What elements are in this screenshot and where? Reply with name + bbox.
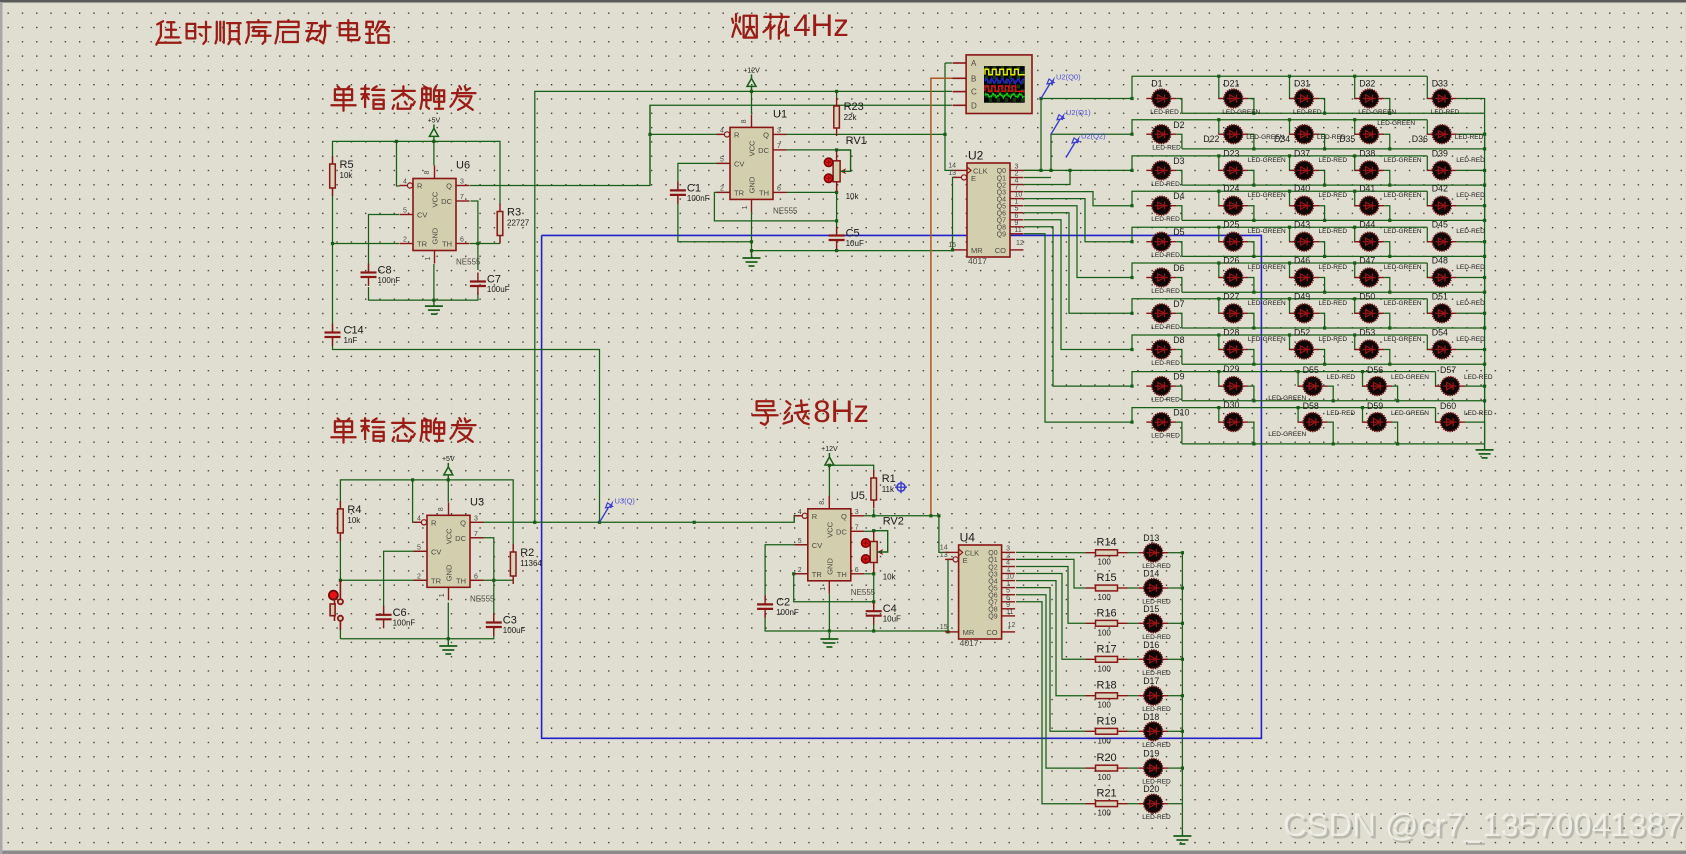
svg-text:1: 1 bbox=[742, 205, 749, 209]
svg-text:TH: TH bbox=[442, 240, 452, 249]
junction U3 TH bbox=[492, 579, 495, 582]
junction row10 topj2 bbox=[1217, 406, 1220, 409]
svg-text:1: 1 bbox=[820, 587, 827, 591]
svg-text:D8: D8 bbox=[1173, 335, 1184, 345]
svg-text:R: R bbox=[734, 130, 740, 139]
svg-text:Q1: Q1 bbox=[997, 175, 1006, 182]
wire U4 Q2 to R16 bbox=[1016, 567, 1086, 624]
wire U2 Q9 to LED row 10 bbox=[1024, 234, 1132, 422]
wire LED collector bbox=[1484, 113, 1486, 444]
svg-text:100: 100 bbox=[1098, 773, 1112, 782]
svg-text:LED-RED: LED-RED bbox=[1151, 216, 1180, 223]
LED D18 LED-RED bbox=[1138, 712, 1171, 749]
svg-text:TH: TH bbox=[759, 188, 769, 197]
svg-text:LED-RED: LED-RED bbox=[1151, 433, 1180, 440]
wire U1 gnd stub bbox=[751, 213, 753, 251]
svg-text:D37: D37 bbox=[1294, 148, 1310, 158]
svg-text:LED-GREEN: LED-GREEN bbox=[1248, 336, 1286, 343]
svg-text:11: 11 bbox=[1015, 227, 1022, 234]
junction row6 topj3 bbox=[1288, 261, 1291, 264]
wire row10 bottom bus bbox=[1182, 443, 1485, 445]
wire row4 drop c4 bbox=[1355, 191, 1361, 206]
junction row7 botj2 bbox=[1252, 326, 1255, 329]
wire row5 cath c4 bbox=[1384, 242, 1390, 257]
junction row1 botj2 bbox=[1252, 112, 1255, 115]
svg-text:D42: D42 bbox=[1432, 184, 1448, 194]
wire R1 bottom bbox=[873, 508, 875, 515]
svg-text:100nF: 100nF bbox=[687, 194, 710, 203]
svg-text:Q: Q bbox=[763, 130, 769, 139]
svg-text:10: 10 bbox=[1006, 574, 1014, 581]
svg-text:5: 5 bbox=[1006, 588, 1010, 595]
LED D21 LED-GREEN bbox=[1218, 79, 1260, 117]
svg-text:D40: D40 bbox=[1294, 184, 1310, 194]
svg-text:LED-GREEN: LED-GREEN bbox=[1268, 431, 1306, 438]
LED D49 LED-RED bbox=[1289, 291, 1347, 322]
junction U6 R top bbox=[395, 140, 398, 143]
wire row7 cath c2 bbox=[1248, 313, 1254, 328]
svg-text:14: 14 bbox=[948, 163, 956, 170]
junction row10 feed bbox=[1130, 421, 1133, 424]
svg-text:11k: 11k bbox=[882, 485, 895, 494]
wire row9 cath c2 bbox=[1248, 386, 1254, 401]
wire U2 Q8 to LED row 9 bbox=[1024, 227, 1132, 386]
junction row5 botj4 bbox=[1388, 255, 1391, 258]
svg-text:4: 4 bbox=[720, 127, 724, 134]
junction Q/R branch bbox=[648, 133, 651, 136]
wire button bottom bbox=[339, 620, 341, 639]
svg-text:D25: D25 bbox=[1223, 220, 1239, 230]
wire row2 drop c5 bbox=[1427, 120, 1433, 135]
svg-text:4: 4 bbox=[798, 509, 802, 516]
LED D46 LED-RED bbox=[1289, 256, 1347, 287]
wire row7 drop c5 bbox=[1427, 299, 1433, 314]
svg-text:D5: D5 bbox=[1173, 227, 1184, 237]
wire row7 top bus bbox=[1132, 299, 1427, 314]
svg-text:Q5: Q5 bbox=[988, 585, 997, 592]
LED D25 LED-GREEN bbox=[1218, 220, 1286, 251]
svg-text:D2: D2 bbox=[1173, 120, 1184, 130]
svg-text:LED-RED: LED-RED bbox=[1431, 109, 1460, 116]
svg-text:8: 8 bbox=[438, 507, 445, 511]
wire row9 drop c2 bbox=[1219, 372, 1225, 387]
wire row2 drop c2 bbox=[1219, 120, 1225, 135]
wire U2 Q4 to LED row 5 bbox=[1024, 199, 1132, 242]
resistor R18 100 bbox=[1086, 680, 1128, 710]
LED D27 LED-GREEN bbox=[1218, 291, 1286, 322]
svg-text:LED-RED: LED-RED bbox=[1293, 109, 1322, 116]
svg-text:10k: 10k bbox=[347, 516, 361, 525]
wire row2 top bus bbox=[1132, 120, 1427, 135]
junction q0 j2 bbox=[1049, 169, 1052, 172]
svg-text:D39: D39 bbox=[1432, 148, 1448, 158]
capacitor C3 100uF bbox=[486, 614, 526, 637]
LED D34 LED-RED bbox=[1274, 125, 1346, 144]
LED D37 LED-RED bbox=[1289, 148, 1347, 179]
junction row6 bus bbox=[1483, 291, 1486, 294]
svg-text:LED-RED: LED-RED bbox=[1319, 336, 1348, 343]
svg-text:DC: DC bbox=[441, 197, 452, 206]
junction row1 botj3 bbox=[1323, 112, 1326, 115]
resistor R21 100 bbox=[1086, 788, 1128, 818]
svg-text:LED-GREEN: LED-GREEN bbox=[1384, 192, 1422, 199]
svg-text:Q2: Q2 bbox=[997, 182, 1006, 189]
svg-text:2: 2 bbox=[720, 185, 724, 192]
junction dbus3 bbox=[1181, 658, 1184, 661]
wire U2 Q5 to LED row 6 bbox=[1024, 206, 1132, 278]
svg-text:LED-GREEN: LED-GREEN bbox=[1248, 264, 1286, 271]
op-amp timer U5 NE555 bbox=[794, 490, 876, 597]
wire U2 Q6 to LED row 7 bbox=[1024, 213, 1132, 314]
svg-text:Q2: Q2 bbox=[988, 564, 997, 571]
wire U6 TR wire bbox=[333, 243, 400, 245]
window edge bottom bbox=[3, 851, 1686, 854]
junction q0 j1 bbox=[1039, 169, 1042, 172]
svg-text:Q4: Q4 bbox=[988, 578, 997, 585]
wire row7 cath c4 bbox=[1384, 313, 1390, 328]
LED D39 LED-RED bbox=[1427, 148, 1485, 179]
svg-text:U6: U6 bbox=[456, 160, 470, 172]
wire row3 drop c5 bbox=[1427, 156, 1433, 171]
junction row5 topj2 bbox=[1217, 226, 1220, 229]
wire U5 R wire bbox=[794, 516, 801, 523]
junction dbus4 bbox=[1181, 694, 1184, 697]
junction row2 botj4 bbox=[1388, 147, 1391, 150]
wire row1 drop c2 bbox=[1219, 76, 1225, 98]
wire row9 cath c4 bbox=[1392, 386, 1398, 401]
wire R14 to D13 bbox=[1128, 552, 1139, 554]
svg-text:6: 6 bbox=[474, 573, 478, 580]
svg-text:5: 5 bbox=[403, 208, 407, 215]
svg-text:D16: D16 bbox=[1143, 640, 1159, 650]
LED D7 LED-RED bbox=[1146, 299, 1184, 331]
svg-text:100: 100 bbox=[1098, 558, 1112, 567]
junction row8 botj2 bbox=[1252, 363, 1255, 366]
svg-text:2: 2 bbox=[1006, 552, 1010, 559]
LED D57 LED-RED bbox=[1435, 365, 1493, 395]
junction row7 bus bbox=[1483, 326, 1486, 329]
svg-text:C6: C6 bbox=[393, 607, 407, 619]
svg-text:R14: R14 bbox=[1097, 537, 1117, 549]
LED D45 LED-RED bbox=[1427, 220, 1485, 251]
junction U1 DC bbox=[835, 148, 838, 151]
svg-text:LED-GREEN: LED-GREEN bbox=[1384, 300, 1422, 307]
svg-text:D18: D18 bbox=[1143, 712, 1159, 722]
svg-text:D19: D19 bbox=[1143, 749, 1159, 759]
LED D31 LED-RED bbox=[1289, 79, 1322, 117]
wire row5 cath c3 bbox=[1319, 242, 1325, 257]
wire row10 drop c5 bbox=[1436, 408, 1442, 423]
svg-text:Q0: Q0 bbox=[988, 550, 997, 557]
svg-text:R1: R1 bbox=[882, 473, 896, 485]
junction row9 topj2 bbox=[1217, 370, 1220, 373]
wire row2 drop c4 bbox=[1355, 120, 1361, 135]
svg-text:LED-RED: LED-RED bbox=[1464, 374, 1493, 381]
wire row3 drop c2 bbox=[1219, 156, 1225, 171]
svg-text:D1: D1 bbox=[1151, 79, 1162, 89]
svg-text:100: 100 bbox=[1098, 736, 1112, 745]
svg-text:11: 11 bbox=[1006, 609, 1013, 616]
svg-text:100uF: 100uF bbox=[487, 285, 510, 294]
wire U3 CV wire bbox=[384, 551, 427, 614]
svg-text:3: 3 bbox=[1015, 163, 1019, 170]
svg-text:C8: C8 bbox=[378, 265, 392, 277]
wire U1 TR route bbox=[714, 192, 836, 221]
svg-text:MR: MR bbox=[971, 246, 983, 255]
op-amp timer U6 NE555 bbox=[400, 160, 482, 267]
svg-text:Q0: Q0 bbox=[997, 168, 1006, 175]
svg-text:R3: R3 bbox=[507, 207, 521, 219]
svg-text:10k: 10k bbox=[883, 573, 897, 582]
wire row4 cath c4 bbox=[1384, 206, 1390, 221]
svg-text:D30: D30 bbox=[1223, 400, 1239, 410]
junction C4 gnd bbox=[872, 629, 875, 632]
wire row5 cath c1 bbox=[1176, 242, 1182, 257]
junction p0 bbox=[1039, 97, 1042, 100]
svg-text:LED-RED: LED-RED bbox=[1142, 814, 1171, 821]
junction Q stair bbox=[937, 514, 940, 517]
junction row7 topj4 bbox=[1353, 297, 1356, 300]
junction C5 gnd bbox=[835, 249, 838, 252]
wire row10 cath c3 bbox=[1328, 422, 1334, 444]
junction row4 topj3 bbox=[1288, 190, 1291, 193]
wire row3 cath c5 bbox=[1457, 170, 1485, 185]
wire D19 cathode bbox=[1168, 767, 1182, 769]
svg-text:RV1: RV1 bbox=[846, 135, 867, 147]
svg-text:LED-RED: LED-RED bbox=[1456, 192, 1485, 199]
wire U3 Q long wire bbox=[484, 516, 802, 523]
LED D15 LED-RED bbox=[1138, 604, 1171, 641]
wire row4 cath c5 bbox=[1457, 206, 1485, 221]
svg-text:R16: R16 bbox=[1097, 607, 1117, 619]
svg-text:Q9: Q9 bbox=[997, 232, 1006, 239]
wire U1 CV wire bbox=[678, 163, 730, 189]
svg-text:R19: R19 bbox=[1097, 715, 1117, 727]
svg-text:10: 10 bbox=[1015, 192, 1023, 199]
svg-text:100: 100 bbox=[1098, 593, 1112, 602]
wire row8 cath c2 bbox=[1248, 350, 1254, 365]
junction U3 R top bbox=[411, 478, 414, 481]
svg-text:NE555: NE555 bbox=[456, 258, 481, 267]
svg-text:R17: R17 bbox=[1097, 643, 1117, 655]
svg-text:CV: CV bbox=[431, 547, 441, 556]
wire row8 cath c3 bbox=[1319, 350, 1325, 365]
svg-text:U2(Q2): U2(Q2) bbox=[1081, 132, 1106, 141]
svg-text:D4: D4 bbox=[1173, 191, 1184, 201]
wire row10 drop c3 bbox=[1298, 408, 1304, 423]
LED D24 LED-GREEN bbox=[1218, 184, 1286, 215]
svg-text:100: 100 bbox=[1098, 628, 1112, 637]
LED D8 LED-RED bbox=[1146, 335, 1184, 367]
power +5V bbox=[442, 456, 455, 480]
ground bbox=[425, 300, 443, 314]
junction row10 botj3 bbox=[1332, 442, 1335, 445]
svg-text:U2: U2 bbox=[968, 149, 984, 163]
potentiometer RV1 10k bbox=[824, 135, 866, 201]
wire U4 Q7 to R21 bbox=[1016, 602, 1086, 804]
wire row5 cath c5 bbox=[1457, 242, 1485, 257]
svg-text:12: 12 bbox=[1016, 240, 1024, 247]
LED D10 LED-RED bbox=[1146, 408, 1189, 440]
svg-text:CV: CV bbox=[417, 211, 427, 220]
junction row2 topj3 bbox=[1288, 118, 1291, 121]
junction row8 botj4 bbox=[1388, 363, 1391, 366]
wire R23 top stub bbox=[836, 91, 838, 98]
junction U5 TH bbox=[872, 572, 875, 575]
wire C1 bottom bbox=[678, 195, 752, 242]
wire C14 bottom run bbox=[333, 338, 600, 522]
ground bbox=[439, 640, 457, 654]
junction row8 topj4 bbox=[1353, 333, 1356, 336]
wire U3 DC wire bbox=[470, 538, 494, 622]
op-amp timer U1 NE555 bbox=[717, 108, 799, 215]
wire row1 drop c5 bbox=[1427, 76, 1433, 98]
junction row8 botj3 bbox=[1323, 363, 1326, 366]
junction row7 topj3 bbox=[1288, 297, 1291, 300]
svg-text:LED-RED: LED-RED bbox=[1456, 228, 1485, 235]
window edge top bbox=[0, 0, 1686, 3]
svg-text:U2(Q0): U2(Q0) bbox=[1056, 73, 1081, 82]
svg-text:9: 9 bbox=[1015, 220, 1019, 227]
LED D5 LED-RED bbox=[1146, 227, 1184, 259]
svg-text:D55: D55 bbox=[1303, 365, 1319, 375]
svg-text:CV: CV bbox=[812, 541, 822, 550]
svg-text:DC: DC bbox=[836, 527, 847, 536]
wire C4 top stub bbox=[873, 602, 875, 610]
svg-text:RV2: RV2 bbox=[883, 516, 904, 528]
junction row2 feed bbox=[1130, 133, 1133, 136]
wire row5 top bus bbox=[1132, 227, 1427, 242]
svg-text:R23: R23 bbox=[844, 101, 864, 113]
counter U2 4017 bbox=[948, 149, 1024, 267]
junction dbus6 bbox=[1181, 767, 1184, 770]
wire U1 vcc stub bbox=[751, 91, 753, 114]
svg-text:D27: D27 bbox=[1223, 291, 1239, 301]
wire U2 Q1 wire bbox=[1024, 177, 1051, 179]
junction U1 Q/A bbox=[943, 133, 946, 136]
svg-text:C2: C2 bbox=[776, 596, 790, 608]
junction row9 botj3 bbox=[1332, 399, 1335, 402]
svg-text:LED-RED: LED-RED bbox=[1151, 397, 1180, 404]
svg-text:Q5: Q5 bbox=[997, 204, 1006, 211]
resistor R1 11k bbox=[871, 470, 896, 508]
ground bbox=[1173, 830, 1191, 844]
svg-text:100: 100 bbox=[1098, 809, 1112, 818]
LED D20 LED-RED bbox=[1138, 784, 1171, 821]
LED D33 LED-RED bbox=[1427, 79, 1460, 117]
wire row7 drop c2 bbox=[1219, 299, 1225, 314]
title 延时顺序启动电路 bbox=[156, 20, 389, 44]
wire R19 to D18 bbox=[1128, 730, 1139, 732]
junction U3 TR bbox=[339, 579, 342, 582]
svg-text:+12V: +12V bbox=[821, 446, 838, 453]
svg-text:D6: D6 bbox=[1173, 263, 1184, 273]
svg-text:DC: DC bbox=[758, 146, 769, 155]
junction U5 vcc bbox=[828, 464, 831, 467]
wire blue loop bbox=[542, 235, 1262, 738]
wire row3 drop c3 bbox=[1290, 156, 1296, 171]
svg-text:Q8: Q8 bbox=[988, 607, 997, 614]
svg-text:D46: D46 bbox=[1294, 256, 1310, 266]
junction row6 botj4 bbox=[1388, 291, 1391, 294]
junction row1 feed bbox=[1130, 97, 1133, 100]
wire row1 cath c1 bbox=[1176, 99, 1182, 114]
wire row10 cath c5 bbox=[1465, 422, 1485, 444]
svg-text:D22: D22 bbox=[1203, 134, 1219, 144]
svg-text:CO: CO bbox=[986, 628, 997, 637]
junction R23 top tap bbox=[835, 90, 838, 93]
svg-text:VCC: VCC bbox=[431, 191, 440, 207]
junction q2 j bbox=[1068, 169, 1071, 172]
svg-text:NE555: NE555 bbox=[470, 594, 495, 603]
wire U5 vcc bus bbox=[828, 466, 830, 505]
wire row3 cath c2 bbox=[1248, 170, 1254, 185]
wire U1 R branch bbox=[650, 133, 723, 135]
svg-text:LED-GREEN: LED-GREEN bbox=[1248, 192, 1286, 199]
wire row3 drop c4 bbox=[1355, 156, 1361, 171]
svg-text:E: E bbox=[963, 556, 968, 565]
junction row8 topj3 bbox=[1288, 333, 1291, 336]
wire row8 drop c5 bbox=[1427, 335, 1433, 350]
wire RV2 col bbox=[873, 563, 875, 602]
junction dbus0 bbox=[1181, 551, 1184, 554]
svg-text:7: 7 bbox=[777, 143, 781, 150]
ground bbox=[1476, 444, 1494, 458]
power +12V bbox=[743, 67, 760, 91]
wire row8 drop c4 bbox=[1355, 335, 1361, 350]
wire row5 drop c2 bbox=[1219, 227, 1225, 242]
junction dbus2 bbox=[1181, 622, 1184, 625]
LED D40 LED-RED bbox=[1289, 184, 1347, 215]
wire row6 cath c2 bbox=[1248, 278, 1254, 293]
svg-text:LED-RED: LED-RED bbox=[1319, 264, 1348, 271]
svg-text:10uF: 10uF bbox=[846, 239, 864, 248]
svg-text:C4: C4 bbox=[883, 603, 897, 615]
svg-text:22k: 22k bbox=[844, 113, 858, 122]
svg-text:TR: TR bbox=[812, 570, 823, 579]
wire row7 cath c5 bbox=[1457, 313, 1485, 328]
svg-text:15: 15 bbox=[948, 242, 956, 249]
junction U5 TR bbox=[792, 572, 795, 575]
wire row6 cath c3 bbox=[1319, 278, 1325, 293]
wire row9 drop c3 bbox=[1298, 372, 1304, 387]
wire row9 cath c3 bbox=[1328, 386, 1334, 401]
svg-text:LED-RED: LED-RED bbox=[1319, 157, 1348, 164]
LED D22 LED-GREEN bbox=[1203, 125, 1284, 144]
junction row6 botj2 bbox=[1252, 291, 1255, 294]
junction row6 feed bbox=[1130, 276, 1133, 279]
marker blue cross bbox=[895, 481, 907, 493]
junction row9 topj4 bbox=[1361, 370, 1364, 373]
svg-text:D43: D43 bbox=[1294, 220, 1310, 230]
wire row6 cath c1 bbox=[1176, 278, 1182, 293]
svg-text:D15: D15 bbox=[1143, 604, 1159, 614]
svg-text:+5V: +5V bbox=[428, 117, 441, 124]
svg-text:D35: D35 bbox=[1339, 134, 1355, 144]
wire row2 cath c1 bbox=[1176, 134, 1182, 149]
LED D60 LED-RED bbox=[1435, 401, 1493, 431]
svg-text:6: 6 bbox=[1006, 595, 1010, 602]
svg-text:LED-GREEN: LED-GREEN bbox=[1384, 264, 1422, 271]
wire U1 DC wire bbox=[787, 149, 837, 151]
svg-text:LED-GREEN: LED-GREEN bbox=[1248, 300, 1286, 307]
svg-text:D38: D38 bbox=[1359, 148, 1375, 158]
wire row1 cath c2 bbox=[1248, 99, 1254, 114]
junction row6 botj3 bbox=[1323, 291, 1326, 294]
wire U6 R riser bbox=[397, 141, 400, 186]
wire row8 cath c5 bbox=[1457, 350, 1485, 365]
junction row4 botj2 bbox=[1252, 219, 1255, 222]
